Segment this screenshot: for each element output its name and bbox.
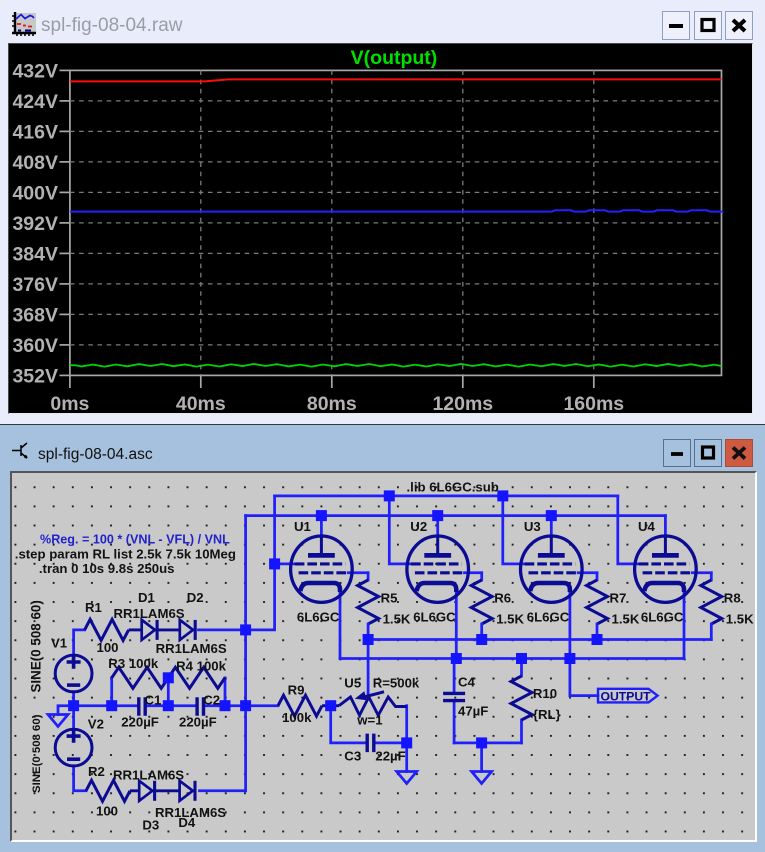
svg-text:D2: D2 (187, 590, 204, 605)
gridline 80ms (331, 70, 333, 375)
schematic window icon (11, 440, 33, 464)
svg-text:SINE(0 508 60): SINE(0 508 60) (28, 600, 43, 692)
svg-text:V1: V1 (51, 636, 67, 651)
svg-text:384V: 384V (12, 243, 58, 265)
svg-text:R8: R8 (724, 591, 741, 606)
bottom window title text (38, 446, 153, 464)
node mid rail (163, 700, 174, 711)
node grid U1 (269, 558, 280, 569)
svg-text:V(output): V(output) (351, 47, 438, 69)
y tick 424V (60, 100, 70, 102)
gridline 360V (70, 344, 722, 346)
svg-text:U2: U2 (410, 519, 427, 534)
svg-text:RR1LAM6S: RR1LAM6S (156, 641, 227, 656)
gridline 408V (70, 161, 722, 163)
wire D4 to riser (200, 789, 246, 792)
svg-text:U4: U4 (638, 519, 656, 534)
svg-text:220µF: 220µF (121, 715, 159, 730)
wire ground rail lower (454, 742, 521, 745)
x tick 0ms (69, 375, 71, 388)
svg-text:R5: R5 (381, 591, 398, 606)
node R3 leg (106, 700, 117, 711)
svg-text:C2: C2 (203, 692, 220, 707)
svg-text:R1: R1 (85, 600, 102, 615)
blue trace V(output) run 2 (70, 210, 722, 211)
wire C3 right segment (377, 742, 407, 745)
capacitor C4 (443, 693, 465, 700)
svg-text:U3: U3 (524, 519, 541, 534)
wire U3 screen stub (578, 571, 597, 574)
x tick 40ms (200, 375, 202, 388)
y tick 408V (60, 161, 70, 163)
svg-text:R6: R6 (494, 591, 511, 606)
wire ground rail segment C (206, 704, 278, 707)
vacuum tube U4 6L6GC (635, 536, 697, 602)
gridline 424V (70, 100, 722, 102)
svg-text:U5: U5 (344, 675, 361, 690)
voltage source V2 (55, 729, 92, 766)
resistor R2 (86, 780, 130, 801)
wire output tap (570, 659, 598, 696)
gridline 368V (70, 313, 722, 315)
wire wiper feed (367, 640, 370, 695)
wire V1 bottom lead (72, 692, 75, 706)
gridline 120ms (462, 70, 464, 375)
top window title bar (0, 0, 765, 44)
resistor R7 (596, 573, 599, 580)
svg-text:.step param RL list 2.5k 7.5k: .step param RL list 2.5k 7.5k 10Meg (15, 547, 236, 562)
y tick 368V (60, 313, 70, 315)
svg-text:C1: C1 (145, 692, 162, 707)
wire V2 bottom lead (74, 766, 86, 791)
svg-text:368V: 368V (12, 304, 58, 326)
wire R4 right leg (224, 678, 227, 706)
svg-text:120ms: 120ms (432, 393, 493, 415)
svg-text:R2: R2 (88, 764, 105, 779)
wire U3 grid drop (503, 496, 525, 564)
capacitor C3 (367, 734, 374, 753)
wire U2 grid drop (389, 496, 411, 564)
bottom window frame (0, 424, 765, 852)
wire R10 top lead (520, 659, 523, 677)
resistor R6 (480, 573, 483, 580)
svg-text:1.5K: 1.5K (612, 612, 640, 627)
capacitor C1 (139, 697, 145, 716)
svg-text:100k: 100k (282, 710, 312, 725)
svg-text:RR1LAM6S: RR1LAM6S (113, 768, 184, 783)
svg-text:R3 100k: R3 100k (108, 656, 159, 671)
y tick 352V (60, 374, 70, 376)
y tick 376V (60, 283, 70, 285)
wire U2 screen stub (465, 571, 482, 574)
y tick 432V (60, 69, 70, 71)
vacuum tube U3 6L6GC (521, 536, 583, 602)
wire V1 top lead (74, 630, 85, 656)
node R4 leg (220, 700, 231, 711)
svg-text:OUTPUT: OUTPUT (601, 690, 652, 704)
svg-text:V2: V2 (88, 717, 104, 732)
bottom minimize button (663, 439, 691, 467)
wire ground rail segment B (147, 704, 195, 707)
svg-text:424V: 424V (12, 91, 58, 113)
wire U4 screen stub (692, 571, 711, 574)
wire U1 plate lead (320, 516, 323, 537)
gridline 376V (70, 283, 722, 285)
wire D2 to riser (199, 629, 246, 632)
node cathode U2 (451, 653, 462, 664)
y tick 360V (60, 344, 70, 346)
node screen R7 (592, 634, 603, 645)
wire U1 cathode drop (339, 591, 342, 659)
svg-text:80ms: 80ms (307, 393, 357, 415)
svg-text:{RL}: {RL} (533, 707, 561, 722)
wire U3 cathode drop (569, 591, 572, 659)
node rectifier out (240, 624, 251, 635)
svg-text:R=500k: R=500k (373, 675, 420, 690)
svg-text:0ms: 0ms (50, 393, 89, 415)
svg-text:47µF: 47µF (458, 703, 488, 718)
y tick 400V (60, 191, 70, 193)
svg-text:392V: 392V (12, 213, 58, 235)
wire grid bus (275, 495, 618, 498)
y tick 384V (60, 252, 70, 254)
wire U4 plate lead (664, 516, 667, 537)
ground (C3) (397, 772, 417, 784)
wire C4 top lead (453, 659, 456, 692)
wire U2 cathode drop (455, 591, 458, 659)
svg-text:R7: R7 (610, 591, 627, 606)
svg-text:D1: D1 (138, 590, 155, 605)
vacuum tube U2 6L6GC (407, 536, 469, 602)
top maximize button (694, 11, 722, 40)
x tick 160ms (593, 375, 595, 388)
svg-text:432V: 432V (12, 60, 58, 82)
wire V2 top lead (72, 706, 75, 730)
gridline 160ms (593, 70, 595, 375)
svg-text:100: 100 (96, 804, 118, 819)
wire right ground stub (480, 743, 483, 772)
schematic canvas (10, 471, 757, 842)
wire U1 screen stub (348, 571, 368, 574)
svg-text:D4: D4 (178, 815, 196, 830)
wire R3 left leg (110, 678, 113, 706)
node cathode out (564, 653, 575, 664)
svg-text:40ms: 40ms (176, 393, 226, 415)
diode D1 (142, 620, 155, 640)
wire pot left drop (331, 706, 365, 743)
wire mid ground stub (405, 743, 408, 772)
node cathode R10 (516, 653, 527, 664)
svg-text:1.5K: 1.5K (496, 612, 524, 627)
svg-text:376V: 376V (12, 274, 58, 296)
resistor R8 (710, 573, 713, 580)
resistor R10 (511, 676, 532, 720)
top window title text (41, 15, 183, 37)
wire U2 plate lead (436, 516, 439, 537)
diode D3 (139, 781, 152, 801)
node plate U2 (432, 510, 443, 521)
node pot left (325, 700, 336, 711)
node C4 gnd (476, 737, 487, 748)
svg-text:R4 100k: R4 100k (176, 659, 227, 674)
svg-text:1.5K: 1.5K (726, 612, 754, 627)
vacuum tube U1 6L6GC (291, 536, 353, 602)
svg-text:C4: C4 (458, 675, 476, 690)
node riser rail (240, 700, 251, 711)
svg-text:6L6GC: 6L6GC (413, 610, 456, 625)
plot black area (8, 43, 753, 414)
svg-text:SINE(0 508 60): SINE(0 508 60) (31, 714, 43, 793)
red trace V(output) run 1 (70, 79, 722, 81)
plot frame (70, 70, 722, 375)
wire U3 plate lead (550, 516, 553, 537)
wire grid node to rectifier node (246, 564, 275, 630)
wire plate bus (246, 514, 666, 517)
svg-text:.tran 0 10s 9.8s 250us: .tran 0 10s 9.8s 250us (39, 561, 175, 576)
gridline 400V (70, 191, 722, 193)
svg-text:160ms: 160ms (563, 393, 624, 415)
green trace V(output) run 3 (70, 364, 722, 367)
svg-text:400V: 400V (12, 182, 58, 204)
svg-text:100: 100 (97, 640, 119, 655)
svg-text:w=1: w=1 (356, 712, 382, 727)
wire screen bus (368, 638, 711, 641)
net flag OUTPUT (598, 689, 658, 703)
node grid U3 (497, 490, 508, 501)
svg-text:6L6GC: 6L6GC (641, 610, 684, 625)
node R3-R4 (163, 672, 174, 683)
ground (V1/V2) (48, 715, 68, 727)
potentiometer U5 wiper arrow (364, 692, 384, 697)
wire ground rail segment A (74, 704, 137, 707)
svg-text:RR1LAM6S: RR1LAM6S (114, 606, 185, 621)
y tick 416V (60, 130, 70, 132)
svg-text:C3: C3 (344, 749, 361, 764)
top minimize button (662, 11, 690, 40)
svg-text:22µF: 22µF (375, 749, 405, 764)
gridline 392V (70, 222, 722, 224)
svg-text:.lib 6L6GC.sub: .lib 6L6GC.sub (407, 480, 499, 495)
svg-text:6L6GC: 6L6GC (527, 610, 570, 625)
ground (C4/R10) (472, 772, 492, 784)
node C3 gnd (401, 737, 412, 748)
bottom close button (725, 439, 753, 467)
resistor R5 (367, 573, 370, 580)
resistor R9 (278, 695, 322, 716)
voltage source V1 (55, 655, 92, 692)
wire left ground stub (58, 706, 74, 715)
top close button (725, 11, 753, 40)
svg-text:408V: 408V (12, 152, 58, 174)
node V1-V2 (68, 700, 79, 711)
bottom maximize button (694, 439, 722, 467)
capacitor C2 (197, 697, 203, 716)
gridline 40ms (200, 70, 202, 375)
resistor R4 (168, 667, 225, 688)
x tick 120ms (462, 375, 464, 388)
wire rectifier output riser (244, 516, 247, 791)
diode D2 (180, 620, 193, 640)
potentiometer U5 (331, 704, 339, 707)
svg-text:%Reg. = 100 * (VNL - VFL) / VN: %Reg. = 100 * (VNL - VFL) / VNL (40, 533, 230, 547)
wire U4 cathode drop (683, 591, 686, 659)
svg-text:352V: 352V (12, 365, 58, 387)
svg-text:D3: D3 (142, 818, 159, 833)
wire U1 grid drop (275, 496, 295, 564)
wire C4 bottom lead (453, 702, 456, 743)
resistor R3 (112, 667, 169, 688)
y tick 392V (60, 222, 70, 224)
plot window icon (12, 12, 36, 37)
gridline 384V (70, 252, 722, 254)
wire R3-R4 junction leg (167, 678, 170, 706)
svg-text:R10: R10 (533, 686, 557, 701)
wire pot right drop (405, 706, 408, 743)
svg-text:U1: U1 (294, 519, 311, 534)
wire cathode bus (340, 657, 684, 660)
node screen R6 (476, 634, 487, 645)
svg-text:360V: 360V (12, 335, 58, 357)
wire R10 bottom lead (520, 720, 523, 743)
svg-text:220µF: 220µF (179, 715, 217, 730)
wire U4 grid drop (618, 496, 639, 564)
resistor R1 (85, 619, 129, 640)
gridline 416V (70, 130, 722, 132)
node screen R5 (363, 634, 374, 645)
node plate U1 (316, 510, 327, 521)
svg-text:R9: R9 (288, 682, 305, 697)
node plate U3 (546, 510, 557, 521)
svg-text:1.5K: 1.5K (383, 612, 411, 627)
x tick 80ms (331, 375, 333, 388)
node grid U2 (384, 490, 395, 501)
diode D4 (180, 781, 193, 801)
svg-text:6L6GC: 6L6GC (297, 610, 340, 625)
svg-text:416V: 416V (12, 121, 58, 143)
